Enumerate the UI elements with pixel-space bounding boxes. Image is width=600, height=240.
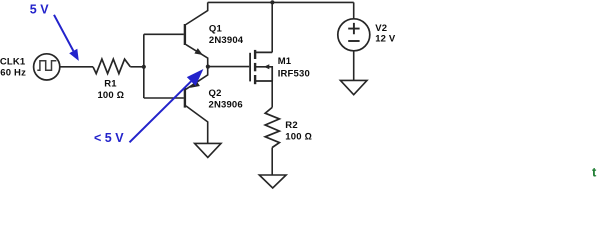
transistor Q1 base bar [184,24,186,45]
svg-text:Q1: Q1 [209,24,223,35]
svg-text:60 Hz: 60 Hz [0,67,26,78]
Q1 collector [186,2,208,24]
wire R2 to ground [271,148,273,176]
Q2 collector [186,106,208,143]
wire node to M1 gate [208,66,249,68]
annotation 5 V arrow [54,15,73,51]
M1 body arrow [264,64,269,69]
node emitter junction dot [206,65,210,69]
top rail wire [208,1,354,3]
svg-text:t: t [592,164,597,179]
svg-text:5 V: 5 V [30,3,49,17]
svg-text:CLK1: CLK1 [0,56,26,67]
M1 source stub [256,80,272,82]
M1 channel segment middle [254,63,256,71]
wire clock to R1 [60,66,93,68]
wire V2 to ground [353,51,355,81]
M1 drain stub [256,51,272,53]
svg-text:100 Ω: 100 Ω [97,90,124,101]
M1 channel segment top [254,50,256,59]
vertical base bus wire [143,34,145,98]
ground under Q2 [195,143,221,157]
V2 plus sign [348,23,359,34]
svg-text:< 5 V: < 5 V [94,131,124,145]
clock source CLK1 circle [34,54,60,80]
svg-text:12 V: 12 V [375,33,396,44]
wire M1 drain to top rail [271,2,273,52]
annotation < 5 V arrow [130,81,192,142]
svg-text:2N3904: 2N3904 [209,35,244,46]
voltage source V2 circle [338,19,370,51]
svg-text:M1: M1 [278,56,292,67]
wire R1 to base node [130,66,144,68]
svg-text:2N3906: 2N3906 [209,100,243,111]
svg-text:Q2: Q2 [209,88,222,99]
wire to Q2 base [144,97,184,99]
clock square-wave glyph [37,61,56,70]
ground under V2 [340,80,367,94]
svg-text:R1: R1 [104,78,117,89]
wire to Q1 base [144,33,184,35]
M1 channel segment bottom [254,75,256,84]
Q2 emitter PNP arrow [190,80,200,88]
svg-text:IRF530: IRF530 [278,68,310,79]
Q1 emitter NPN arrow [194,48,203,55]
M1 body line to source [256,67,272,81]
resistor R1 zigzag [93,59,130,74]
Q1 emitter [186,45,208,67]
Q2 emitter [186,67,208,90]
node dot drain on rail [270,0,274,4]
transistor Q2 base bar [184,87,186,107]
wire rail to V2 [353,2,355,18]
svg-text:100 Ω: 100 Ω [285,132,312,143]
V2 minus sign [348,40,359,42]
wire M1 source down to R2 [271,81,273,107]
svg-text:R2: R2 [285,120,298,131]
resistor R2 zigzag [265,107,279,147]
node junction dot at base bus [142,65,146,69]
mosfet M1 gate bar [249,53,251,82]
ground under R2 [259,175,286,188]
